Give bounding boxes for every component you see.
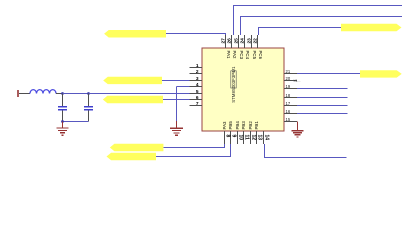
port P1 — [17, 90, 30, 97]
bottom net label flag 1 — [110, 144, 164, 151]
wire top pin 6 up to top-right flag — [258, 28, 260, 36]
svg-text:18: 18 — [286, 93, 291, 98]
U1 value box — [231, 71, 236, 88]
svg-text:PA2: PA2 — [232, 51, 237, 60]
svg-text:12: 12 — [250, 135, 256, 141]
wire pin 4 to ground vertical — [177, 86, 190, 88]
net label flag B (left, to pin 6) — [103, 96, 163, 103]
net label flag A (left, to pin 3) — [103, 77, 162, 84]
svg-text:6: 6 — [196, 95, 199, 101]
svg-text:PC6: PC6 — [258, 51, 263, 60]
wire C1 bottom to C2 bottom — [63, 121, 89, 123]
wire node A to node B — [63, 93, 89, 95]
U1 right pin numbers — [286, 69, 291, 122]
bottom net label flag 2 — [107, 153, 157, 160]
svg-text:PA3: PA3 — [222, 121, 227, 130]
svg-text:1: 1 — [196, 63, 199, 69]
svg-text:PC3: PC3 — [239, 51, 244, 60]
wire flag to top pin 1 — [166, 33, 226, 35]
svg-text:11: 11 — [243, 135, 249, 141]
U1 top pin stubs — [226, 35, 258, 48]
wire bottom pin 2 to flag 2 — [230, 144, 232, 157]
svg-text:STM8S003F3P6: STM8S003F3P6 — [231, 70, 236, 103]
svg-text:2: 2 — [196, 69, 199, 75]
svg-text:16: 16 — [286, 109, 291, 114]
U1 bottom inside pin names — [222, 121, 259, 130]
svg-text:PC4: PC4 — [245, 51, 250, 60]
wire right pin 3 — [297, 88, 348, 90]
capacitor C2 — [84, 94, 93, 122]
svg-text:PB1: PB1 — [254, 121, 259, 130]
svg-text:3: 3 — [196, 76, 199, 82]
svg-text:8: 8 — [224, 135, 230, 138]
wire right pin 6 — [297, 113, 348, 115]
svg-text:PB3: PB3 — [241, 121, 246, 130]
wire bottom pin 1 to flag 1 — [224, 144, 226, 148]
wire right pin 1 to right flag — [297, 73, 360, 75]
top-left net label flag (to top pin 1) — [104, 30, 166, 38]
node C junction — [61, 120, 64, 123]
right net label flag — [360, 70, 402, 77]
svg-text:PB2: PB2 — [248, 121, 253, 130]
wire node B to pin 5 of U1 — [89, 93, 190, 95]
svg-text:4: 4 — [196, 82, 199, 88]
svg-text:24: 24 — [239, 38, 245, 44]
svg-text:13: 13 — [256, 135, 262, 141]
wire right pin 4 — [297, 97, 348, 99]
svg-text:15: 15 — [286, 117, 291, 122]
U1 right pin stubs — [284, 74, 297, 122]
wire right pin 5 — [297, 105, 348, 107]
svg-text:20: 20 — [286, 76, 291, 81]
svg-text:7: 7 — [196, 101, 199, 107]
U1 bottom pin stubs — [225, 131, 264, 144]
svg-text:17: 17 — [286, 101, 291, 106]
U1 left pin numbers — [196, 63, 199, 107]
wire bottom pin 7 down and right — [264, 144, 266, 158]
top-right net label flag — [341, 24, 402, 31]
svg-text:PA1: PA1 — [226, 51, 231, 60]
U1 bottom pin numbers (rotated) — [224, 135, 269, 141]
U1 top pin numbers (rotated) — [220, 38, 258, 44]
node B junction — [87, 92, 90, 95]
wire top pin 2 up to right edge — [233, 6, 235, 36]
svg-text:19: 19 — [286, 84, 291, 89]
ground GND2 — [170, 121, 183, 135]
wire flag B to pin 6 — [163, 99, 190, 101]
svg-text:5: 5 — [196, 89, 199, 95]
IC U1 body — [202, 48, 284, 131]
svg-text:23: 23 — [246, 38, 252, 44]
U1 top inside pin names — [226, 51, 263, 60]
wire top pin 3 up to right edge — [240, 17, 242, 36]
svg-text:21: 21 — [286, 69, 291, 74]
node A junction — [61, 92, 64, 95]
svg-text:PB4: PB4 — [235, 121, 240, 130]
capacitor C1 — [58, 94, 67, 122]
wire flag A to pin 3 — [162, 80, 190, 82]
svg-text:PC5: PC5 — [252, 51, 257, 60]
wire L1 to node A — [56, 93, 63, 95]
svg-text:27: 27 — [220, 38, 226, 44]
ground GND3 (right pin 7) — [291, 122, 303, 137]
ground GND1 — [57, 122, 69, 136]
U1 left pin stubs (pins 1-7) — [190, 68, 203, 106]
svg-text:14: 14 — [263, 135, 269, 141]
svg-text:9: 9 — [230, 135, 236, 138]
svg-text:X1…: X1… — [294, 79, 301, 83]
svg-text:26: 26 — [226, 38, 232, 44]
svg-text:25: 25 — [233, 38, 239, 44]
svg-text:PB5: PB5 — [228, 121, 233, 130]
inductor L1 — [30, 90, 56, 94]
svg-text:22: 22 — [252, 38, 258, 44]
svg-text:10: 10 — [237, 135, 243, 141]
